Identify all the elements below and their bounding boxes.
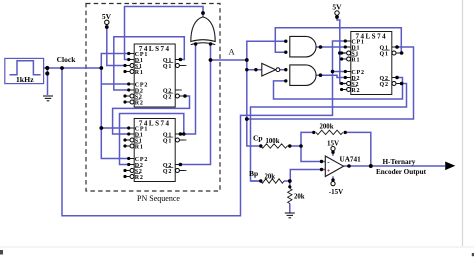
svg-text:Encoder Output: Encoder Output [376,168,427,176]
svg-text:Q1: Q1 [380,52,389,58]
svg-text:A: A [229,47,236,57]
svg-text:15V: 15V [327,140,339,148]
svg-text:20k: 20k [265,174,276,181]
svg-text:100k: 100k [266,138,280,145]
svg-text:Cp: Cp [253,134,263,143]
svg-text:PN Sequence: PN Sequence [137,194,180,203]
svg-text:Bp: Bp [249,169,258,178]
svg-text:R2: R2 [135,175,144,181]
svg-text:1kHz: 1kHz [16,75,34,84]
svg-text:Q2: Q2 [380,82,389,88]
svg-text:Clock: Clock [57,55,77,64]
svg-text:R2: R2 [135,101,144,107]
svg-text:+: + [327,168,331,175]
svg-text:R1: R1 [351,58,360,64]
svg-text:R2: R2 [351,88,360,94]
svg-text:Q2: Q2 [163,95,172,101]
svg-text:Q1: Q1 [163,139,172,145]
svg-text:20k: 20k [294,194,305,201]
svg-text:H-Ternary: H-Ternary [383,158,416,166]
svg-text:Q2: Q2 [163,169,172,175]
svg-text:Q1: Q1 [163,64,172,70]
svg-text:R1: R1 [135,70,144,76]
svg-text:R1: R1 [135,145,144,151]
svg-text:200k: 200k [320,124,334,131]
svg-text:-15V: -15V [329,188,343,196]
svg-text:UA741: UA741 [340,156,362,164]
svg-text:5V: 5V [332,3,342,12]
